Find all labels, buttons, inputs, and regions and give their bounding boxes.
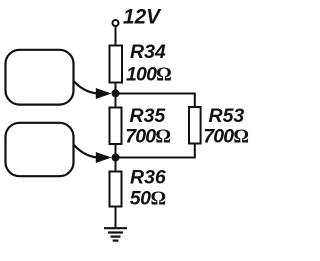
resistor R34 — [110, 46, 123, 83]
wire node A to R53 branch — [116, 94, 195, 108]
arrow from box 2 to node B — [74, 145, 97, 158]
callout box 1 — [6, 50, 74, 105]
12V supply terminal — [113, 20, 119, 26]
wire terminal to R34 — [115, 26, 117, 46]
resistor R36 — [110, 172, 122, 207]
svg-text:R53: R53 — [209, 105, 245, 127]
ground — [104, 228, 127, 240]
resistor R53 — [189, 107, 201, 144]
svg-text:700Ω: 700Ω — [203, 126, 248, 148]
svg-text:R35: R35 — [130, 105, 167, 127]
svg-text:R34: R34 — [130, 41, 166, 63]
node B junction dot — [112, 154, 120, 162]
wire R34 to node A — [115, 83, 117, 108]
svg-text:12V: 12V — [123, 6, 162, 29]
node A junction dot — [112, 89, 120, 97]
svg-text:50Ω: 50Ω — [130, 188, 166, 210]
callout box 2 — [6, 123, 74, 176]
wire R36 to ground — [115, 207, 117, 229]
svg-text:100Ω: 100Ω — [126, 64, 171, 86]
arrow from box 1 to node A — [74, 82, 97, 94]
wire R35 to R36 through node B — [115, 144, 117, 172]
svg-text:700Ω: 700Ω — [125, 126, 170, 148]
wire R53 bottom to node B — [116, 144, 195, 158]
resistor R35 — [110, 108, 122, 145]
svg-text:R36: R36 — [130, 167, 166, 189]
